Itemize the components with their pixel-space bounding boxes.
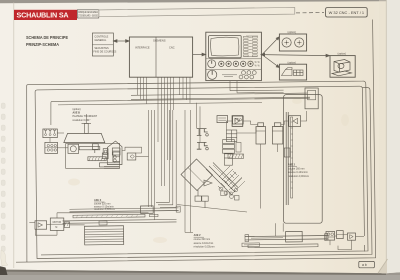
panel row divider 2 (206, 68, 262, 70)
wire turns above x rail (156, 110, 247, 212)
wires servo row (226, 111, 306, 209)
svg-text:(option): (option) (338, 52, 347, 55)
svg-text:résolution 0,001°: résolution 0,001° (73, 119, 91, 122)
wire fan group b (down the middle) (158, 77, 174, 186)
wires: cluster to z-drive (122, 110, 155, 220)
svg-text:résolution 0,001mm: résolution 0,001mm (194, 245, 215, 248)
z motor block on enclosure (305, 88, 318, 109)
dashed leader to sheet reference (296, 12, 324, 14)
encoder block B (45, 142, 58, 153)
headstock housing (pentagon) (103, 141, 122, 168)
svg-text:W 32 CNC - ENT / 1: W 32 CNC - ENT / 1 (329, 11, 365, 15)
wire: block A to encoder (49, 138, 51, 143)
wires to valves (197, 103, 201, 143)
relay box b (233, 116, 244, 124)
sheet reference box W 32 CNC (326, 8, 368, 17)
svg-text:GENERAL: GENERAL (94, 39, 107, 42)
bus line 3 with corner to axe B (51, 98, 310, 125)
x bed (hatched block) (84, 226, 123, 245)
motor block B (43, 129, 57, 138)
drawing title (26, 35, 68, 47)
z drive unit a (326, 232, 335, 241)
diagonal way hatch lower (218, 171, 237, 190)
wire: siemens to panel with arrow (193, 53, 206, 56)
svg-text:SIEMENS: SIEMENS (153, 38, 166, 42)
wire: blocks to table (57, 133, 68, 148)
svg-text:AXE B: AXE B (73, 112, 81, 115)
x linear scale (73, 214, 158, 218)
svg-text:MOTOR: MOTOR (53, 222, 62, 224)
wires z units (330, 235, 364, 250)
bus line 2 (131, 97, 310, 99)
svg-text:2735 BEVILARD - SUISSE: 2735 BEVILARD - SUISSE (78, 14, 98, 18)
handwheel unit (option) (279, 31, 306, 51)
left margin rule (13, 3, 15, 269)
x coupling (64, 222, 84, 228)
svg-text:AXE 2: AXE 2 (288, 164, 296, 167)
svg-text:course 160 mm: course 160 mm (288, 168, 304, 171)
paper right edge facing page (387, 0, 400, 273)
panel spindle override knob (208, 70, 217, 79)
programming computer (option) (330, 52, 355, 77)
sheet number box (359, 261, 375, 267)
address box FABRIQUE DE MACHINES (77, 10, 99, 18)
x servo amp (35, 221, 47, 229)
terminal strip (226, 130, 236, 142)
x main rail (69, 205, 180, 214)
z linear scale (242, 242, 318, 248)
svg-text:FABRIQUE DE MACHINES: FABRIQUE DE MACHINES (78, 10, 98, 14)
panel button circles (219, 61, 254, 66)
wires into x amp (29, 213, 148, 235)
svg-text:AXE Z: AXE Z (194, 234, 202, 237)
svg-text:SCHEMA DE PRINCIPE: SCHEMA DE PRINCIPE (26, 35, 68, 40)
wire: controle to siemens (double arrow) (113, 40, 129, 43)
panel top small text rows (244, 36, 258, 57)
panel tiny label row (222, 75, 237, 77)
svg-text:résolution 0,001mm: résolution 0,001mm (288, 175, 309, 178)
wires: panel to option units (261, 37, 330, 68)
cross way hatch (perpendicular) (219, 166, 245, 193)
coolant valve upper (197, 129, 209, 137)
z main rail (245, 231, 328, 242)
bearing chain (219, 187, 239, 200)
svg-text:FINS DE COURSES: FINS DE COURSES (93, 50, 116, 53)
coolant valve lower (197, 142, 209, 150)
svg-text:course 320 mm: course 320 mm (194, 238, 210, 241)
panel softkey column (244, 36, 258, 56)
wires: panel down to bus (230, 81, 284, 93)
relay box a (217, 116, 228, 123)
amp box left (232, 116, 243, 127)
svg-text:avance 0-10m/min: avance 0-10m/min (288, 171, 308, 174)
frame loop outer (16, 20, 376, 263)
operator panel housing (206, 32, 262, 80)
paper age stains (68, 60, 349, 244)
axe B drive enclosure (66, 144, 120, 169)
z drive unit b (337, 231, 344, 239)
pendant station (option) (279, 61, 306, 80)
perforation marks left edge (1, 103, 5, 252)
rotary table (64, 114, 105, 143)
z axis enclosure (284, 95, 323, 224)
wire fan group c (to right buses) (180, 77, 191, 103)
diagonal way hatch upper (206, 163, 238, 196)
svg-text:SCHAUBLIN SA: SCHAUBLIN SA (17, 11, 69, 20)
svg-text:avance 0-10m/min: avance 0-10m/min (194, 242, 214, 245)
amp box right (289, 116, 301, 127)
svg-text:INTERFACE: INTERFACE (135, 46, 150, 50)
block: controle general / securites (92, 33, 116, 56)
z amp (348, 233, 356, 240)
bottom right folded corner (378, 260, 387, 274)
vertical slide rails (284, 112, 292, 205)
svg-text:a b: a b (362, 263, 367, 267)
frame loop middle (35, 86, 372, 258)
wires: buses down to z rail (185, 110, 283, 236)
logo bar SCHAUBLIN SA (14, 10, 77, 20)
bus line 1 (131, 93, 307, 95)
panel corner glyphs (255, 61, 261, 68)
right crease line (385, 0, 387, 273)
panel CRT screen (209, 36, 242, 58)
label axe vertical (288, 164, 309, 178)
x motor (50, 218, 64, 230)
svg-text:(option): (option) (73, 108, 81, 111)
bottom-left dark wedge (0, 266, 8, 275)
panel knob row divider (206, 58, 262, 60)
spindle coupling box (127, 153, 136, 160)
label axe B (73, 108, 98, 122)
svg-text:CNC: CNC (169, 46, 175, 50)
panel mode selector knob (208, 60, 216, 68)
label axe z (194, 234, 215, 248)
panel small pushbuttons (239, 71, 256, 79)
junction double box (195, 190, 208, 208)
svg-text:PLATEAU TOURNANT: PLATEAU TOURNANT (73, 115, 98, 118)
right crease shading (379, 0, 387, 273)
table drive cluster (68, 144, 120, 167)
turret output amp glyph (204, 180, 212, 186)
header title strip (99, 8, 295, 17)
bottom page edge shadow (0, 270, 386, 275)
svg-text:M: M (55, 227, 57, 229)
turret cross slide (181, 159, 213, 191)
x lower guide (62, 219, 176, 225)
motor cylinder Z (272, 123, 282, 144)
servo amp X (232, 116, 243, 127)
label axe x (94, 199, 115, 211)
turret small bits (221, 142, 241, 195)
gear stack (223, 140, 235, 166)
flat hatched bar (228, 154, 244, 158)
motor cylinder X (256, 123, 265, 144)
block: SIEMENS interface / cnc (129, 37, 192, 77)
bus line 4 (58, 102, 262, 105)
svg-text:PRINZIP-SCHEMA: PRINZIP-SCHEMA (26, 42, 59, 47)
wire fan group a (to left buses) (138, 77, 147, 104)
